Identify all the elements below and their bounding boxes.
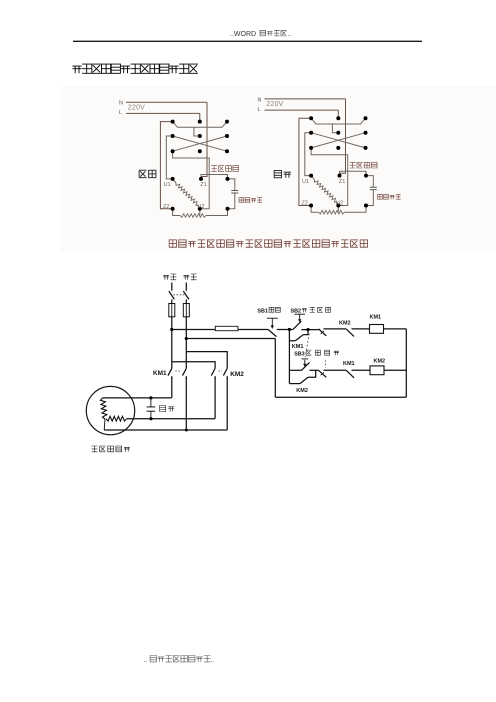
KM2 main contact pole 1	[214, 364, 216, 368]
wire KM2 pole2 down	[226, 378, 228, 431]
wire N vertical to Z1	[340, 99, 346, 176]
wire outer left vertical row1 to Z2	[299, 118, 311, 205]
mech link dashes SB2-SB3	[305, 334, 309, 358]
svg-text:L: L	[258, 107, 261, 113]
motor circle	[86, 386, 134, 434]
wire bar to middle row2	[194, 127, 200, 136]
main winding diagonal zigzag	[311, 176, 314, 180]
KM1 main contact pole 1	[171, 364, 173, 368]
capacitor plates	[231, 190, 238, 192]
svg-text:KM2: KM2	[296, 388, 308, 394]
knife switch blade hot	[169, 291, 175, 299]
svg-text:220V: 220V	[128, 104, 145, 111]
svg-text:U1: U1	[302, 179, 309, 185]
wire KM1 pole2 to common rail	[185, 378, 187, 431]
wire cross 1	[173, 136, 227, 151]
label start capacitor	[239, 198, 262, 203]
crossover neutral to KM2 right pole	[186, 352, 227, 364]
wire L vertical to top middle terminal	[199, 113, 201, 121]
junction common/neutral	[185, 429, 188, 432]
figure caption	[169, 240, 367, 247]
svg-text:SB2: SB2	[291, 308, 302, 314]
KM2 main contact pole 2	[226, 364, 228, 368]
wire KM2 coil to right bus	[384, 369, 406, 371]
node B dot	[306, 328, 309, 331]
wire motor top lead	[103, 397, 172, 399]
SB3 reverse button	[302, 362, 310, 370]
svg-text:SB3: SB3	[294, 351, 305, 357]
svg-text:..: ..	[144, 657, 148, 664]
wire SB1 to node A	[277, 329, 293, 331]
wire to second contact	[324, 328, 347, 330]
wire to KM2 coil	[352, 369, 371, 371]
second NC blade rung1	[346, 329, 354, 337]
switch bar top	[173, 122, 227, 128]
switch terminal dots	[171, 120, 175, 124]
wire row3-left to U2	[173, 151, 210, 209]
KM1 holding contact	[289, 330, 295, 341]
junction cap top	[149, 396, 152, 399]
header rule	[73, 40, 422, 42]
junction hot/control	[170, 328, 173, 331]
KM2 coil	[370, 366, 384, 375]
svg-text:N: N	[258, 97, 262, 103]
label centrifugal switch	[350, 162, 377, 168]
interlock link dashes	[325, 360, 327, 367]
start winding zigzag	[319, 210, 345, 214]
svg-text:Z1: Z1	[339, 179, 346, 185]
control fuse	[215, 326, 238, 330]
svg-text:220V: 220V	[266, 101, 283, 108]
wire row3-left to U2	[311, 148, 348, 206]
wire L line	[265, 109, 339, 111]
svg-text:SB1: SB1	[257, 308, 268, 314]
wire bar to middle row2	[332, 124, 338, 133]
svg-text:KM2: KM2	[339, 320, 351, 326]
wire bottom winding row	[311, 206, 318, 213]
wire cross 2	[173, 136, 227, 151]
motor main winding	[100, 398, 107, 419]
wire inner left vertical row2 to U1	[166, 136, 172, 179]
SB2 forward button	[293, 321, 302, 329]
KM1 main link dashes	[175, 370, 181, 372]
svg-text:..: ..	[211, 657, 215, 664]
neutral branch to control	[186, 338, 275, 340]
hot vertical	[171, 317, 173, 364]
wire coil to right bus	[384, 328, 407, 330]
knife switch link dashes	[173, 294, 184, 296]
svg-text:U2: U2	[197, 204, 204, 210]
svg-text:U2: U2	[336, 201, 343, 207]
motor start winding	[106, 416, 127, 421]
capacitor plates	[370, 186, 377, 188]
control top bus	[172, 329, 216, 331]
switch bar top	[311, 118, 365, 124]
wire bottom winding row	[173, 209, 180, 216]
start winding zigzag	[180, 214, 206, 218]
label stop	[269, 307, 280, 312]
wire cross 1	[311, 133, 365, 148]
wire to second contact rung2	[324, 369, 347, 371]
label hot wire	[163, 274, 176, 280]
supply stub hot	[171, 283, 173, 291]
wire inner left vertical row2 to U1	[305, 133, 311, 176]
SB1 stop button	[268, 330, 276, 337]
wire capacitor branch	[227, 179, 235, 190]
document title	[72, 64, 198, 73]
neutral vertical	[185, 317, 187, 364]
label start capacitor	[378, 194, 401, 199]
svg-text:Z1: Z1	[200, 182, 207, 188]
KM1 interlock NC blade rung2	[319, 370, 327, 377]
run capacitor	[147, 406, 156, 408]
label motor	[92, 446, 130, 452]
wire SB2 to KM2 NC	[301, 329, 318, 331]
svg-text:..WORD: ..WORD	[230, 31, 256, 38]
wire motor common rail	[104, 429, 227, 431]
wire to KM1 coil	[352, 328, 370, 330]
wire L vertical to top middle terminal	[337, 110, 339, 118]
svg-text:KM2: KM2	[374, 358, 386, 364]
svg-text:KM1: KM1	[343, 361, 355, 367]
wire cross 2	[311, 133, 365, 148]
label forward	[139, 170, 156, 177]
svg-text:..: ..	[288, 31, 292, 38]
svg-text:L: L	[119, 110, 122, 116]
KM1 coil	[370, 325, 384, 334]
label forward start	[302, 307, 331, 312]
KM2 holding contact	[289, 383, 300, 385]
rung2 left vertical	[288, 341, 290, 384]
fuse neutral	[185, 300, 187, 304]
svg-text:KM1: KM1	[292, 344, 304, 350]
wire capacitor branch	[366, 176, 374, 187]
second NC blade rung2	[346, 370, 354, 378]
label reverse	[274, 171, 291, 178]
label neutral wire	[184, 274, 197, 280]
rung2 wire from left	[289, 369, 301, 371]
crossover hot to KM2 left pole	[172, 362, 215, 364]
wire N vertical to Z1	[201, 102, 207, 179]
junction neutral/control	[185, 337, 188, 340]
motor common lead	[103, 419, 106, 430]
svg-text:N: N	[119, 101, 123, 107]
knife switch blade neutral	[183, 291, 189, 299]
wire N line	[126, 101, 207, 103]
svg-text:KM1: KM1	[370, 314, 382, 320]
wire L line	[126, 112, 200, 114]
label capacitor	[160, 406, 175, 412]
svg-text:Z2: Z2	[302, 201, 309, 207]
main winding diagonal zigzag	[173, 179, 176, 183]
KM2 main link dashes	[219, 370, 222, 372]
wire motor start lead	[127, 418, 216, 420]
wire outer left vertical row1 to Z2	[160, 122, 172, 209]
wire centrifugal switch link	[201, 175, 228, 179]
svg-text:KM1: KM1	[153, 370, 167, 377]
wire centrifugal switch link	[340, 171, 367, 175]
KM1 main contact pole 2	[185, 364, 187, 368]
figure image light background	[60, 86, 496, 252]
svg-text:U1: U1	[164, 182, 171, 188]
node A dot	[288, 328, 291, 331]
label centrifugal switch	[211, 166, 238, 172]
svg-text:Z2: Z2	[163, 204, 170, 210]
rung2 wire after SB3	[310, 369, 319, 371]
supply stub neutral	[185, 283, 187, 291]
fuse hot	[171, 300, 173, 304]
wire KM2 pole1 down	[214, 378, 216, 419]
KM2 interlock NC blade	[319, 329, 327, 336]
svg-text:KM2: KM2	[230, 371, 244, 378]
right bus	[405, 329, 407, 397]
switch terminal dots	[309, 116, 313, 120]
wire KM1 pole1 to motor top	[171, 378, 173, 398]
wire N line	[265, 98, 346, 100]
bottom rail	[275, 396, 406, 398]
label reverse start	[306, 350, 339, 355]
junction cap bottom	[149, 417, 152, 420]
